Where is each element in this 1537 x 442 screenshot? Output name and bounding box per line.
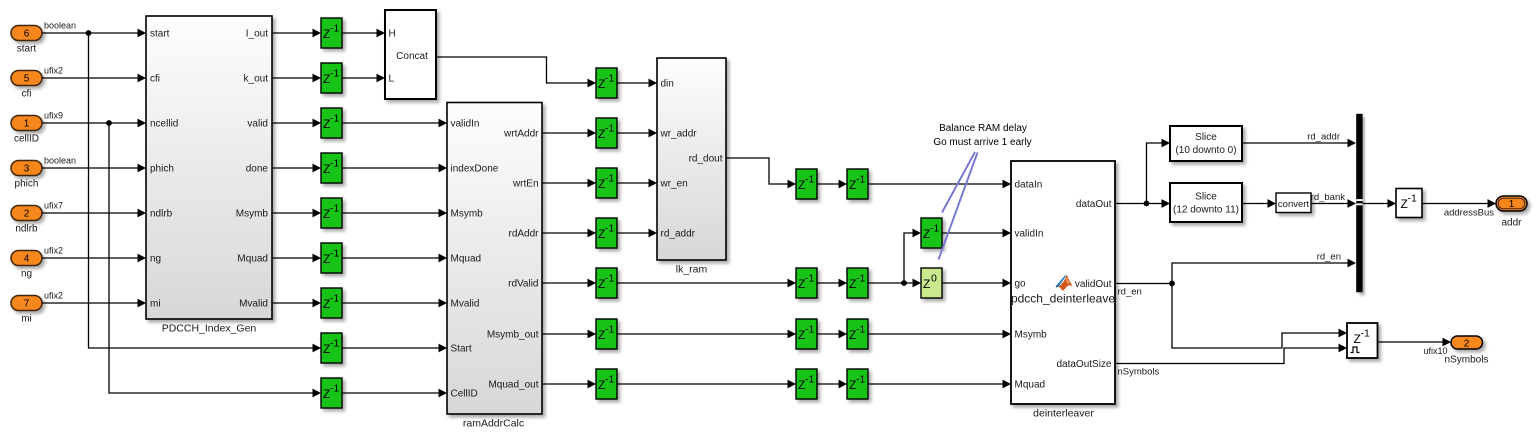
delay Z-1 col1 row2 [321,63,342,93]
svg-text:indexDone: indexDone [451,164,499,175]
svg-text:-1: -1 [856,324,865,336]
svg-text:valid: valid [247,119,268,130]
svg-text:1: 1 [24,119,30,130]
node go junction [901,280,907,286]
svg-text:din: din [661,79,674,90]
svg-text:ufix9: ufix9 [44,111,63,121]
wire validOut [1115,283,1172,285]
svg-text:start: start [17,44,37,55]
svg-text:PDCCH_Index_Gen: PDCCH_Index_Gen [162,323,257,335]
svg-text:-1: -1 [605,273,614,285]
svg-text:ufix2: ufix2 [44,66,63,76]
wire rd_en down to delay-en [1172,284,1340,349]
svg-text:2: 2 [24,209,30,220]
wire rdAddr [542,232,589,234]
svg-text:(12 downto 11): (12 downto 11) [1173,205,1239,216]
delay Z-1 col1 row1 [321,18,342,48]
wire cellID to PDCCH_Index_Gen [42,122,139,124]
svg-text:Mquad_out: Mquad_out [488,380,538,391]
svg-text:rd_addr: rd_addr [661,229,696,240]
svg-text:wr_en: wr_en [660,179,688,190]
wire Mquad to ramAddrCalc [342,257,440,259]
svg-text:(10 downto 0): (10 downto 0) [1175,145,1236,156]
delay Z-1 col1 row9 [321,378,342,408]
wire valid [272,122,314,124]
svg-text:Mquad: Mquad [237,254,268,265]
inport 7 mi [11,296,42,311]
wire cellID down to Z-1 row9 [109,123,314,393]
svg-text:wr_addr: wr_addr [660,129,698,140]
delay Z-1 enabled nSymbols [1347,323,1378,358]
wire rd_en to bus [1172,263,1349,284]
delay Z-1 addressBus [1396,189,1422,218]
delay Z-1 col2 row3 [596,168,617,198]
wire Mquad_out to pair [617,383,789,385]
delay Z-1 col1 row5 [321,198,342,228]
svg-text:ufix2: ufix2 [44,291,63,301]
wire cfi to PDCCH_Index_Gen [42,77,139,79]
node dataOut junction [1144,201,1150,207]
wire wrtAddr [542,132,589,134]
wire rdValid [542,282,589,284]
delay Z-1 col1 row6 [321,243,342,273]
wire Msymb_out to pair [617,333,789,335]
svg-text:3: 3 [24,164,30,175]
subsystem PDCCH_Index_Gen [146,16,272,319]
svg-text:cfi: cfi [22,89,32,100]
svg-text:-1: -1 [605,173,614,185]
matlab function block deinterleaver [1011,161,1115,404]
wire dataOut [1115,203,1163,205]
svg-text:ng: ng [150,254,161,265]
delay Z-1 pairB row4 [847,369,868,399]
svg-text:CellID: CellID [451,389,478,400]
slice1 block [1170,126,1242,161]
delay Z-1 col2 row4 [596,218,617,248]
svg-text:Mvalid: Mvalid [239,299,268,310]
delay Z-1 pairA row2 [796,268,817,298]
svg-text:ufix7: ufix7 [44,201,63,211]
delay Z-1 col2 row1 [596,68,617,98]
svg-text:validIn: validIn [1015,229,1044,240]
wire Concat out to din delay [436,57,589,83]
subsystem ramAddrCalc [447,103,542,415]
inport 3 phich [11,161,42,176]
callout line to Z-1 [942,152,975,213]
wire phich to PDCCH_Index_Gen [42,167,139,169]
svg-text:addressBus: addressBus [1444,208,1494,219]
convert block [1276,193,1311,213]
svg-text:mi: mi [150,299,161,310]
svg-text:-1: -1 [330,338,339,350]
delay Z-1 col1 row3 [321,108,342,138]
svg-text:ncellid: ncellid [150,119,178,130]
wire ng to PDCCH_Index_Gen [42,257,139,259]
svg-text:-1: -1 [330,68,339,80]
bus creator bar [1356,114,1362,292]
wire dataOutSize nSymbols [1115,348,1340,364]
svg-text:Msymb: Msymb [236,209,269,220]
wire Start to ramAddrCalc [342,347,440,349]
svg-text:k_out: k_out [244,74,269,85]
wire I_out delayed to Concat H [342,32,378,34]
slice2 block [1170,183,1242,222]
wire done [272,167,314,169]
node start junction [86,30,92,36]
wire wrtEn [542,182,589,184]
wire go row to junction [868,282,914,284]
delay Z-1 validIn path [921,218,942,248]
svg-text:pdcch_deinterleave: pdcch_deinterleave [1011,292,1115,306]
wire bus to delay [1363,203,1389,205]
svg-text:rdAddr: rdAddr [508,229,539,240]
svg-text:cfi: cfi [150,74,160,85]
svg-text:Mvalid: Mvalid [451,299,480,310]
wire Msymb to ramAddrCalc [342,212,440,214]
wire rd_addr to lk_ram [617,232,650,234]
svg-text:wrtEn: wrtEn [512,179,539,190]
wire pair row1 [817,183,840,185]
svg-text:rd_en: rd_en [1317,252,1341,263]
delay Z-1 pairA row4 [796,369,817,399]
svg-text:-1: -1 [605,374,614,386]
svg-text:Msymb: Msymb [1015,330,1048,341]
wire dataIn to deinterleaver [868,183,1004,185]
wire wr_addr to lk_ram [617,132,650,134]
wire Mquad to deinterleaver [868,383,1004,385]
svg-text:nSymbols: nSymbols [1118,367,1160,378]
svg-text:deinterleaver: deinterleaver [1033,408,1094,420]
wire start down to Z-1 row8 [89,33,315,348]
svg-text:-1: -1 [805,273,814,285]
svg-text:validOut: validOut [1075,279,1112,290]
wire Mvalid [272,302,314,304]
wire Slice2 to convert [1242,203,1269,205]
wire Mquad [272,257,314,259]
svg-text:Start: Start [451,344,472,355]
svg-text:done: done [246,164,269,175]
wire up to Z-1 validIn [904,233,914,283]
svg-text:Slice: Slice [1195,192,1217,203]
svg-text:ufix2: ufix2 [44,246,63,256]
svg-text:start: start [150,29,170,40]
inport 1 cellID [11,116,42,131]
svg-text:phich: phich [150,164,174,175]
svg-text:4: 4 [24,254,30,265]
svg-text:rd_bank: rd_bank [1311,192,1346,203]
svg-text:Concat: Concat [396,51,428,62]
svg-text:-1: -1 [805,374,814,386]
svg-text:-1: -1 [330,248,339,260]
svg-text:dataOut: dataOut [1076,199,1112,210]
wire Z-1 out to validIn [942,232,1004,234]
svg-text:-1: -1 [605,123,614,135]
svg-text:Msymb_out: Msymb_out [487,330,539,341]
node validOut junction [1169,281,1175,287]
wire rd_dout to pair delays [726,158,789,184]
svg-text:Mquad: Mquad [1015,380,1046,391]
outport 2 nSymbols [1451,336,1483,349]
svg-text:H: H [389,29,396,40]
wire ndlrb to PDCCH_Index_Gen [42,212,139,214]
delay Z-1 col1 row7 [321,288,342,318]
wire I_out [272,32,314,34]
svg-text:rd_en: rd_en [1118,287,1142,298]
outport 1 addr [1496,196,1527,211]
svg-text:convert: convert [1278,199,1310,210]
svg-text:Msymb: Msymb [451,209,484,220]
svg-text:-1: -1 [330,383,339,395]
svg-text:addr: addr [1501,218,1522,229]
svg-text:ramAddrCalc: ramAddrCalc [463,418,524,430]
subsystem lk_ram [657,58,726,260]
svg-text:Slice: Slice [1195,132,1217,143]
svg-text:rd_dout: rd_dout [689,154,723,165]
node cellID junction [106,120,112,126]
svg-text:go: go [1015,279,1027,290]
wire k_out delayed to Concat L [342,77,378,79]
delay Z-1 col2 row5 [596,268,617,298]
wire Mvalid to ramAddrCalc [342,302,440,304]
wire delay-en to outport 2 [1378,341,1445,343]
svg-text:Z: Z [923,277,930,291]
svg-text:-1: -1 [1408,193,1417,205]
inport 5 cfi [11,71,42,86]
svg-text:-1: -1 [856,374,865,386]
wire start to PDCCH_Index_Gen [42,32,139,34]
wire pair row2 [817,282,840,284]
svg-text:0: 0 [931,273,937,285]
svg-text:-1: -1 [330,23,339,35]
wire convert to bus [1311,203,1349,205]
wire up to Slice1 [1147,143,1164,204]
wire pair row3 [817,333,840,335]
svg-text:cellID: cellID [14,134,39,145]
svg-text:-1: -1 [805,174,814,186]
delay Z-1 pairB row1 [847,169,868,199]
wire mi to PDCCH_Index_Gen [42,302,139,304]
svg-text:dataOutSize: dataOutSize [1056,359,1111,370]
wire delay to outport addr [1422,203,1489,205]
delay Z-1 pairB row3 [847,319,868,349]
svg-text:-1: -1 [930,223,939,235]
inport 2 ndlrb [11,206,42,221]
svg-text:-1: -1 [330,113,339,125]
inport 6 start [11,26,42,41]
svg-text:Mquad: Mquad [451,254,482,265]
delay Z0 go path [921,268,942,298]
svg-text:-1: -1 [856,273,865,285]
svg-text:rdValid: rdValid [508,279,538,290]
svg-text:nSymbols: nSymbols [1445,355,1489,366]
svg-text:-1: -1 [1361,328,1370,340]
svg-text:2: 2 [1464,338,1470,349]
wire din to lk_ram [617,82,650,84]
delay Z-1 pairA row3 [796,319,817,349]
wire Msymb to deinterleaver [868,333,1004,335]
svg-text:-1: -1 [330,158,339,170]
svg-text:I_out: I_out [246,29,268,40]
delay Z-1 col2 row7 [596,369,617,399]
wire done to ramAddrCalc [342,167,440,169]
wire k_out [272,77,314,79]
wire Z0 out to go [942,282,1004,284]
wire Msymb_out [542,333,589,335]
svg-text:6: 6 [24,29,30,40]
svg-text:-1: -1 [856,174,865,186]
svg-text:-1: -1 [605,223,614,235]
svg-text:-1: -1 [605,324,614,336]
matlab logo [1056,275,1073,291]
wire rdValid to pair [617,282,789,284]
svg-text:lk_ram: lk_ram [676,264,708,276]
delay Z-1 col1 row8 [321,333,342,363]
svg-text:boolean: boolean [44,156,76,166]
wire CellID to ramAddrCalc [342,392,440,394]
delay Z-1 pairB row2 [847,268,868,298]
svg-text:Balance RAM delay: Balance RAM delay [939,123,1027,134]
wire wr_en to lk_ram [617,182,650,184]
svg-text:1: 1 [1509,199,1515,210]
svg-text:Go must arrive 1 early: Go must arrive 1 early [933,137,1031,148]
svg-text:-1: -1 [805,324,814,336]
wire Mquad_out [542,383,589,385]
wire valid to ramAddrCalc [342,122,440,124]
svg-text:5: 5 [24,74,30,85]
callout line to Z0 [939,153,978,260]
svg-text:dataIn: dataIn [1015,180,1043,191]
svg-text:ng: ng [21,269,32,280]
wire Slice1 to bus [1242,142,1349,144]
svg-text:ndlrb: ndlrb [15,224,38,235]
svg-text:rd_addr: rd_addr [1307,132,1340,143]
svg-text:7: 7 [24,299,30,310]
svg-text:L: L [389,74,395,85]
delay Z-1 col2 row2 [596,118,617,148]
svg-text:-1: -1 [330,203,339,215]
svg-text:mi: mi [21,314,32,325]
wire Msymb [272,212,314,214]
svg-text:-1: -1 [330,293,339,305]
svg-text:validIn: validIn [451,119,480,130]
svg-text:ndlrb: ndlrb [150,209,173,220]
inport 4 ng [11,251,42,266]
delay Z-1 col1 row4 [321,153,342,183]
delay Z-1 col2 row6 [596,319,617,349]
concat block [385,10,436,99]
svg-text:-1: -1 [605,73,614,85]
svg-text:wrtAddr: wrtAddr [503,129,539,140]
svg-text:phich: phich [15,179,39,190]
delay Z-1 pairA row1 [796,169,817,199]
svg-text:boolean: boolean [44,21,76,31]
wire pair row4 [817,383,840,385]
